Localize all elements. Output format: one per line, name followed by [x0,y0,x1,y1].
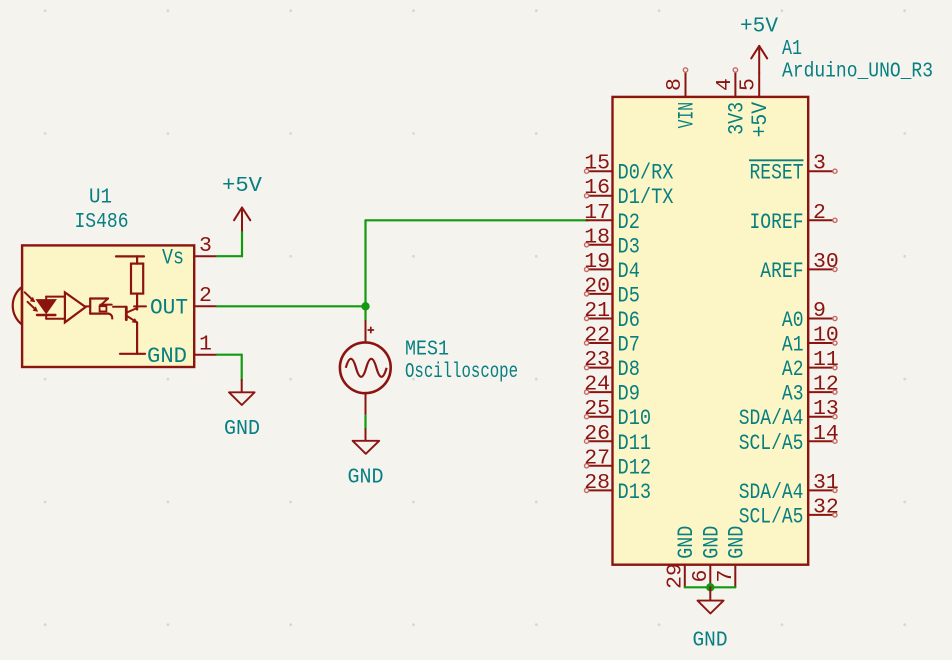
A1 pin 28 D13 [584,471,651,505]
svg-text:SDA/A4: SDA/A4 [739,480,804,505]
svg-text:11: 11 [813,348,839,372]
pull-up resistor (U1 internal) [116,256,144,309]
schmitt trigger glyph (U1 internal) [85,299,112,320]
svg-text:17: 17 [584,201,610,225]
svg-text:GND: GND [224,417,260,441]
A1 pin 22 D7 [584,324,640,358]
svg-text:VIN: VIN [675,102,700,128]
svg-text:8: 8 [663,78,687,91]
svg-text:20: 20 [584,274,610,298]
svg-text:14: 14 [813,422,839,446]
svg-text:4: 4 [713,78,737,91]
A1 pin 9 A0 [782,299,837,333]
A1 pin 6 GND (bottom) [689,526,725,588]
svg-text:22: 22 [584,324,610,348]
svg-text:9: 9 [813,299,826,323]
svg-text:26: 26 [584,422,610,446]
svg-text:RESET: RESET [750,161,804,186]
A1 pin 10 A1 [782,324,839,358]
A1 pin 19 D4 [584,250,640,284]
svg-text:D9: D9 [618,382,640,407]
svg-text:32: 32 [813,495,839,519]
svg-text:28: 28 [584,471,610,495]
junction node (GND net) [706,583,714,591]
svg-text:5: 5 [737,78,761,91]
U1 pin 2 OUT [150,284,217,321]
svg-text:3: 3 [199,234,212,258]
svg-text:Oscilloscope: Oscilloscope [405,360,518,384]
svg-text:OUT: OUT [150,296,188,321]
svg-text:12: 12 [813,373,839,397]
A1 pin 26 D11 [584,422,651,456]
svg-text:24: 24 [584,373,610,397]
svg-text:2: 2 [813,201,826,225]
svg-text:+5V: +5V [222,174,262,198]
svg-text:SDA/A4: SDA/A4 [739,406,804,431]
wire junction up to D2 [366,220,589,306]
photodiode D (U1 internal) [37,297,65,319]
svg-text:19: 19 [584,250,610,274]
svg-text:D6: D6 [618,308,640,333]
svg-text:13: 13 [813,397,839,421]
A1 pin 15 D0/RX [584,152,673,186]
svg-text:GND: GND [348,465,384,489]
svg-text:GND: GND [693,628,728,652]
A1 pin 4 3V3 (top) [713,68,750,135]
ground symbol GND (Arduino) [693,587,728,652]
svg-text:23: 23 [584,348,610,372]
svg-text:1: 1 [199,333,212,357]
svg-text:D1/TX: D1/TX [618,185,674,210]
A1 pin 23 D8 [584,348,640,382]
svg-text:A1: A1 [782,37,802,61]
A1 pin 20 D5 [584,274,640,308]
power symbol +5V (left) [222,174,262,231]
svg-text:29: 29 [663,563,687,589]
svg-text:MES1: MES1 [405,338,449,362]
junction node (OUT net) [361,302,369,310]
svg-text:U1: U1 [89,186,112,210]
A1 pin 8 VIN (top) [663,68,700,129]
svg-text:SCL/A5: SCL/A5 [739,504,804,529]
photodiode light arrows (U1 internal) [25,292,38,312]
A1 pin 31 SDA/A4 [739,471,839,505]
svg-text:16: 16 [584,176,610,200]
ground symbol GND (oscilloscope) [348,429,384,489]
svg-text:A2: A2 [782,357,804,382]
A1 pin 7 GND (bottom) [714,526,750,588]
svg-text:15: 15 [584,152,610,176]
svg-text:GND: GND [147,344,187,369]
svg-text:D13: D13 [618,480,652,505]
A1 pin 11 A2 [782,348,839,382]
svg-text:25: 25 [584,397,610,421]
svg-text:6: 6 [689,570,713,583]
svg-text:+5V: +5V [748,101,773,137]
svg-text:2: 2 [199,284,212,308]
A1 pin 17 D2 [584,201,640,235]
wire oscilloscope to ground [364,416,366,430]
svg-text:7: 7 [714,570,738,583]
svg-text:GND: GND [724,526,749,559]
A1 pin 5 +5V (top) [737,73,774,138]
svg-text:27: 27 [584,446,610,470]
svg-text:D11: D11 [618,431,652,456]
A1 pin 27 D12 [584,446,651,480]
svg-text:GND: GND [674,526,699,559]
svg-text:D2: D2 [618,210,640,235]
svg-text:Vs: Vs [162,246,184,271]
U1 pin 1 GND [147,333,217,370]
svg-text:30: 30 [813,250,839,274]
wire U1 GND pin to ground [217,355,242,380]
A1 pin 30 AREF [760,250,839,284]
svg-text:A3: A3 [782,382,804,407]
ground symbol GND (left) [224,380,260,441]
svg-text:D12: D12 [618,455,652,480]
A1 pin 29 GND (bottom) [663,526,699,589]
A1 pin 32 SCL/A5 [739,495,839,529]
output tick to OUT pin (U1 internal) [134,305,146,307]
IC U1 IS486 body [13,245,194,367]
amplifier triangle (U1 internal) [65,292,86,322]
transistor Q (U1 internal NPN) [113,307,145,354]
svg-text:18: 18 [584,225,610,249]
svg-text:D3: D3 [618,234,640,259]
svg-text:31: 31 [813,471,839,495]
oscilloscope MES1 [340,321,391,416]
svg-text:+5V: +5V [740,15,778,39]
U1 pin 3 Vs [162,234,217,271]
A1 pin 2 IOREF [750,201,838,235]
svg-text:10: 10 [813,324,839,348]
svg-text:AREF: AREF [760,259,803,284]
svg-text:D7: D7 [618,333,640,358]
A1 pin 16 D1/TX [584,176,673,210]
svg-text:D8: D8 [618,357,640,382]
svg-text:D4: D4 [618,259,640,284]
svg-text:D0/RX: D0/RX [618,161,674,186]
svg-text:D10: D10 [618,406,652,431]
A1 pin 13 SDA/A4 [739,397,839,431]
A1 pin 12 A3 [782,373,839,407]
svg-text:Arduino_UNO_R3: Arduino_UNO_R3 [782,60,933,84]
svg-text:IOREF: IOREF [750,210,804,235]
wire joining GND pins [685,586,736,588]
svg-text:21: 21 [584,299,610,323]
A1 pin 21 D6 [584,299,640,333]
power symbol +5V (Arduino) [740,15,778,73]
svg-text:IS486: IS486 [75,210,129,234]
svg-text:D5: D5 [618,283,640,308]
svg-text:GND: GND [699,526,724,559]
A1 pin 18 D3 [584,225,640,259]
A1 pin 25 D10 [584,397,651,431]
svg-text:A1: A1 [782,333,804,358]
A1 pin 14 SCL/A5 [739,422,839,456]
svg-text:A0: A0 [782,308,804,333]
A1 pin 3 RESET [749,152,837,186]
A1 pin 24 D9 [584,373,640,407]
svg-text:3: 3 [813,152,826,176]
wire U1 Vs to +5V [217,231,242,257]
svg-text:SCL/A5: SCL/A5 [739,431,804,456]
svg-text:3V3: 3V3 [724,102,749,135]
wire U1 OUT to junction [217,305,366,307]
IC A1 Arduino_UNO_R3 body [613,97,809,565]
wire junction down to oscilloscope [364,306,366,321]
